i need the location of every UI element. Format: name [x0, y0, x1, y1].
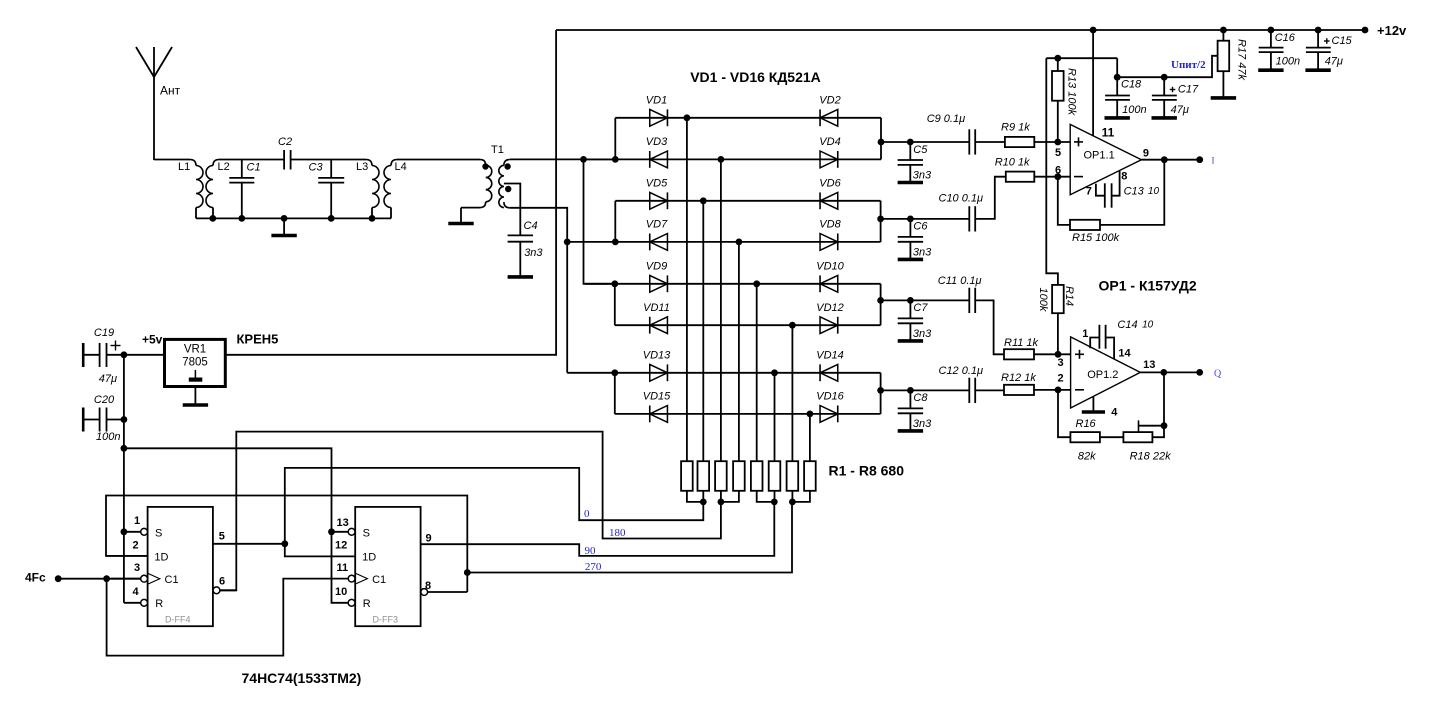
svg-text:3: 3: [1058, 357, 1064, 369]
resistor R7: [787, 461, 799, 491]
pin 3 C1 FF4 clock: [111, 578, 141, 580]
svg-text:270: 270: [585, 561, 602, 573]
wire R3 bottom: [720, 491, 722, 502]
svg-text:C12 0.1μ: C12 0.1μ: [939, 365, 984, 377]
wire mixer row 4: [567, 241, 880, 243]
node C1 bottom: [238, 215, 245, 222]
svg-text:C19: C19: [94, 327, 114, 339]
svg-text:C8: C8: [913, 392, 928, 404]
resistor R17 47k: [1222, 30, 1224, 41]
wire filter bottom rail: [196, 217, 391, 219]
capacitor C1: [241, 160, 243, 178]
svg-text:VD5: VD5: [646, 177, 668, 189]
node R7R8: [789, 499, 796, 506]
wire antenna to L1: [154, 159, 190, 161]
op-amp OP1.2: [1071, 337, 1141, 408]
capacitor C13 between pins 7 8: [1096, 184, 1105, 196]
ground VR1: [194, 387, 196, 405]
node -in OP1.2: [1055, 387, 1062, 394]
svg-text:9: 9: [426, 533, 432, 545]
pin 11 C1 FF3: [348, 575, 355, 582]
svg-text:C1: C1: [165, 574, 179, 586]
svg-text:100n: 100n: [1276, 56, 1300, 68]
svg-text:2: 2: [133, 540, 139, 552]
svg-text:13: 13: [337, 517, 349, 529]
wire stem of resistor R2: [702, 201, 704, 461]
wire link rows VD5-VD7: [614, 201, 616, 242]
wire R6 bottom: [774, 491, 776, 502]
svg-text:D-FF4: D-FF4: [165, 615, 191, 625]
wire R8 bottom to node: [792, 491, 810, 502]
wire group 4 output: [881, 389, 911, 391]
svg-text:R1 - R8 680: R1 - R8 680: [829, 463, 905, 479]
svg-text:ОР1 - К157УД2: ОР1 - К157УД2: [1099, 277, 1197, 293]
capacitor C2: [283, 150, 285, 170]
svg-text:1: 1: [1082, 328, 1088, 340]
wire stem of resistor R7: [791, 325, 793, 461]
svg-text:VD16: VD16: [816, 391, 844, 403]
svg-text:R12 1k: R12 1k: [1001, 372, 1036, 384]
wire stem of resistor R3: [720, 159, 722, 461]
inductor L4: [391, 160, 397, 166]
svg-text:1D: 1D: [362, 551, 376, 563]
svg-text:C11 0.1μ: C11 0.1μ: [938, 275, 982, 287]
wire stem of resistor R6: [774, 373, 776, 461]
svg-text:VD3: VD3: [646, 136, 668, 148]
svg-text:47μ: 47μ: [1171, 104, 1189, 116]
wire mixer group 3 output vertical: [880, 284, 882, 325]
wire stem of resistor R4: [738, 242, 740, 461]
ground T1 primary: [460, 208, 462, 223]
wire link rows VD13-VD15: [614, 373, 616, 414]
svg-text:7: 7: [1086, 186, 1092, 198]
wire T1 secondary bottom to mixer: [510, 208, 567, 373]
svg-text:+5v: +5v: [142, 333, 163, 347]
node R5 taps mixer row: [753, 280, 760, 287]
svg-text:VD13: VD13: [643, 349, 671, 361]
node R18 wiper: [1161, 422, 1168, 429]
node +in OP1.1: [1054, 139, 1061, 146]
wire stem of resistor R5: [756, 284, 758, 461]
diode VD13: [650, 364, 668, 381]
wire group 3 output: [881, 299, 911, 301]
wire link rows VD9-VD11: [614, 284, 616, 325]
node FF3 S tap: [328, 528, 335, 535]
wire +5v to FF3 S and R: [124, 448, 348, 603]
svg-text:OP1.2: OP1.2: [1087, 369, 1118, 381]
resistor R1: [681, 461, 693, 491]
svg-text:4: 4: [133, 586, 140, 598]
resistor R10: [1006, 172, 1035, 182]
diode VD10: [820, 275, 838, 292]
wire R12 to opamp: [1034, 389, 1071, 391]
svg-text:R11 1k: R11 1k: [1004, 337, 1039, 349]
node +5v branch to FF3: [121, 445, 128, 452]
pin 13 S FF3: [348, 528, 355, 535]
svg-text:Uпит/2: Uпит/2: [1171, 59, 1206, 71]
wire +5v vertical: [123, 355, 125, 603]
wire R1 bottom to node: [687, 491, 703, 502]
diode VD3: [650, 151, 668, 168]
inductor L1: [190, 160, 196, 166]
svg-text:VD9: VD9: [646, 260, 667, 272]
node R6 taps mixer row: [771, 369, 778, 376]
diode VD5: [650, 192, 668, 209]
resistor R8: [804, 461, 816, 491]
wire Upit/2 node line: [1116, 58, 1118, 77]
voltage regulator VR1 7805: [165, 339, 226, 386]
svg-text:4: 4: [1111, 407, 1118, 419]
svg-text:100n: 100n: [96, 431, 120, 443]
svg-text:C14: C14: [1117, 319, 1137, 331]
resistor R3: [715, 461, 727, 491]
wire mixer row 7: [567, 372, 880, 374]
resistor R6: [769, 461, 781, 491]
wire stem of resistor R8: [809, 414, 811, 461]
svg-text:C9 0.1μ: C9 0.1μ: [927, 113, 965, 125]
wire mixer row 1: [615, 117, 881, 119]
svg-text:10: 10: [1148, 186, 1160, 197]
wire R11 to opamp: [1034, 353, 1071, 355]
svg-text:6: 6: [1055, 165, 1061, 177]
wire Upit/2 distribution: [1046, 57, 1117, 59]
svg-text:R: R: [363, 598, 371, 610]
svg-text:5: 5: [219, 531, 225, 543]
node R17 top: [1220, 27, 1227, 34]
pin 1 S FF4: [124, 531, 141, 533]
capacitor C16: [1268, 27, 1275, 34]
node L3 bottom: [369, 215, 376, 222]
node +in OP1.2: [1055, 351, 1062, 358]
wire input A down to row VD9: [584, 159, 615, 283]
capacitor C7: [907, 297, 914, 304]
svg-text:82k: 82k: [1078, 451, 1096, 463]
node R1 taps mixer row: [684, 114, 691, 121]
svg-text:3n3: 3n3: [913, 418, 932, 430]
wire OP1.2 output: [1140, 371, 1199, 373]
wire stem of resistor R1: [686, 118, 688, 461]
svg-text:+12v: +12v: [1377, 23, 1407, 38]
node group 4 output: [877, 387, 884, 394]
node R5R6: [771, 499, 778, 506]
svg-text:14: 14: [1118, 348, 1131, 360]
wire mixer group 4 output vertical: [880, 373, 882, 414]
capacitor C6: [907, 216, 914, 223]
node R3 taps mixer row: [718, 156, 725, 163]
resistor R14 100k bias: [1052, 285, 1064, 313]
wire 4Fc detour to FF3 clock: [107, 579, 349, 656]
svg-text:8: 8: [1121, 171, 1127, 183]
svg-text:2: 2: [1058, 373, 1064, 385]
T1 secondary polarity dot lower: [505, 186, 511, 192]
svg-text:7805: 7805: [182, 357, 208, 369]
node phase0 at FF4 Q: [281, 540, 288, 547]
svg-text:9: 9: [1143, 148, 1149, 160]
node pin11 supply: [1090, 27, 1097, 34]
svg-text:3n3: 3n3: [913, 328, 932, 340]
svg-text:VD12: VD12: [816, 302, 844, 314]
op-amp OP1.1: [1070, 124, 1141, 194]
svg-text:C18: C18: [1121, 79, 1142, 91]
svg-text:L4: L4: [395, 161, 407, 173]
capacitor C19: [82, 343, 85, 367]
node R2 taps mixer row: [700, 197, 707, 204]
svg-text:VD1 - VD16 КД521А: VD1 - VD16 КД521А: [690, 69, 821, 85]
ground filter: [283, 218, 285, 234]
inductor L2: [213, 160, 219, 166]
svg-text:VD15: VD15: [643, 391, 671, 403]
resistor R18 22k trimmer: [1100, 436, 1124, 438]
capacitor C5: [907, 139, 914, 146]
feedback R16 82k: [1058, 390, 1070, 437]
svg-text:C15: C15: [1332, 35, 1353, 47]
svg-text:C16: C16: [1275, 32, 1296, 44]
svg-text:T1: T1: [491, 144, 504, 156]
svg-text:1: 1: [134, 515, 140, 527]
diode VD1: [650, 109, 668, 126]
svg-text:R17 47k: R17 47k: [1236, 39, 1248, 80]
wire FF4 1D from 270 line: [106, 496, 467, 573]
wire phase 180 line: [220, 432, 721, 591]
svg-text:R9 1k: R9 1k: [1001, 122, 1030, 134]
node R13 top: [1054, 55, 1061, 62]
capacitor C20: [82, 408, 85, 432]
wire +12v rail down to VR1 input: [225, 30, 556, 355]
pin 4 ground OP1.2: [1092, 397, 1094, 411]
resistor R13 100k bias: [1057, 101, 1059, 142]
resistor R5: [751, 461, 763, 491]
wire C10 up to R10: [975, 177, 1006, 219]
node R7 taps mixer row: [789, 322, 796, 329]
diode VD14: [820, 364, 838, 381]
wire group 2 output: [881, 218, 911, 220]
svg-text:R15 100k: R15 100k: [1072, 232, 1120, 244]
wire mixer row 8: [615, 413, 881, 415]
svg-text:C2: C2: [278, 136, 292, 148]
svg-text:R14: R14: [1063, 286, 1075, 306]
wire C11 down to R11: [975, 300, 1004, 354]
svg-text:R10 1k: R10 1k: [995, 157, 1030, 169]
svg-text:C4: C4: [524, 220, 538, 232]
svg-text:C1: C1: [372, 574, 386, 586]
svg-text:VD1: VD1: [646, 94, 667, 106]
svg-text:Ант: Ант: [160, 84, 181, 98]
diode VD4: [820, 151, 838, 168]
svg-text:R: R: [155, 598, 163, 610]
svg-text:R13 100k: R13 100k: [1066, 68, 1078, 116]
svg-text:VD6: VD6: [819, 177, 841, 189]
capacitor C9: [910, 141, 969, 143]
svg-text:VD8: VD8: [819, 219, 841, 231]
svg-text:D-FF3: D-FF3: [373, 615, 399, 625]
wire group 1 output: [881, 141, 910, 143]
svg-text:12: 12: [335, 540, 347, 552]
svg-text:90: 90: [585, 545, 597, 557]
svg-text:13: 13: [1143, 359, 1155, 371]
node -in OP1.1: [1054, 173, 1061, 180]
node 270 junction: [464, 569, 471, 576]
svg-text:R16: R16: [1076, 418, 1097, 430]
wire mixer row 2: [584, 158, 882, 160]
node C18: [1114, 74, 1121, 81]
wire mixer group 2 output vertical: [880, 201, 882, 242]
svg-text:L1: L1: [178, 161, 190, 173]
svg-text:C1: C1: [247, 162, 261, 174]
svg-text:S: S: [155, 527, 162, 539]
svg-text:L3: L3: [356, 161, 368, 173]
svg-text:VD14: VD14: [816, 349, 844, 361]
svg-text:VD4: VD4: [819, 136, 840, 148]
svg-text:VD7: VD7: [646, 219, 668, 231]
capacitor C8: [907, 387, 914, 394]
svg-text:3n3: 3n3: [913, 170, 932, 182]
svg-text:100n: 100n: [1122, 104, 1146, 116]
wire phase 0 line: [285, 468, 704, 544]
capacitor C14 between pins 1 14: [1090, 338, 1099, 349]
svg-text:47μ: 47μ: [99, 373, 117, 385]
svg-text:5: 5: [1055, 147, 1061, 159]
wire FF4 Q to FF3 1D: [285, 544, 355, 557]
node C17: [1161, 74, 1168, 81]
capacitor C15: [1315, 27, 1322, 34]
resistor R11: [1004, 349, 1034, 359]
wire R2 bottom: [702, 491, 704, 502]
node group 1 output: [878, 139, 885, 146]
feedback R15 100k: [1100, 160, 1164, 225]
node R4 taps mixer row: [736, 239, 743, 246]
wire C2 to L3: [291, 159, 366, 161]
resistor R12: [1004, 385, 1034, 395]
resistor R9: [1005, 137, 1034, 147]
capacitor C18: [1116, 77, 1118, 95]
node group 3 output: [877, 297, 884, 304]
wire phase 90 line: [421, 502, 775, 556]
svg-text:VD11: VD11: [643, 302, 670, 314]
wire mixer row 6: [615, 324, 881, 326]
diode VD12: [820, 317, 838, 334]
capacitor C11: [910, 299, 969, 301]
pin 8 Qbar FF3: [421, 589, 428, 596]
node R1R2: [700, 499, 707, 506]
svg-text:C20: C20: [94, 394, 115, 406]
resistor R2: [698, 461, 710, 491]
svg-text:11: 11: [1102, 126, 1115, 140]
wire L2 to C2: [219, 159, 284, 161]
antenna Ant: [136, 47, 154, 160]
wire mixer group 1 output vertical: [880, 118, 882, 160]
wire mixer row 5: [585, 283, 881, 285]
svg-text:74HC74(1533ТМ2): 74HC74(1533ТМ2): [242, 670, 362, 686]
svg-text:C7: C7: [913, 302, 928, 314]
pin 4 R FF4: [124, 602, 141, 604]
terminal I output: [1196, 156, 1203, 163]
svg-text:OP1.1: OP1.1: [1084, 150, 1115, 162]
svg-text:6: 6: [219, 576, 225, 588]
node R3R4: [718, 499, 725, 506]
svg-text:8: 8: [425, 580, 431, 592]
capacitor C12: [910, 389, 969, 391]
svg-text:VR1: VR1: [184, 344, 206, 356]
node L2 bottom: [209, 215, 216, 222]
svg-text:C3: C3: [309, 162, 324, 174]
T1 primary polarity dot: [482, 163, 488, 169]
inductor L3: [366, 160, 372, 166]
terminal Q output: [1196, 369, 1203, 376]
svg-text:S: S: [363, 527, 370, 539]
wire +12v rail: [556, 29, 1365, 31]
wire L4 to T1: [397, 159, 480, 161]
svg-text:10: 10: [1142, 319, 1154, 330]
wire OP1.1 output: [1141, 159, 1199, 161]
diode VD16: [820, 406, 838, 423]
svg-text:C10 0.1μ: C10 0.1μ: [939, 193, 984, 205]
node input B on row VD7: [564, 239, 571, 246]
node 4Fc branch: [103, 575, 110, 582]
svg-text:47μ: 47μ: [1325, 56, 1343, 68]
diode VD2: [820, 109, 838, 126]
pin 2 1D FF4: [106, 555, 148, 557]
pin 11 supply OP1.1: [1092, 30, 1094, 136]
svg-text:3: 3: [134, 562, 140, 574]
wire R5 bottom to node: [757, 491, 775, 502]
transformer T1 secondary: [504, 160, 510, 166]
wire R9 to opamp: [1034, 141, 1070, 143]
node C20: [121, 416, 128, 423]
svg-text:0: 0: [584, 508, 590, 520]
wire phase 270 line: [467, 502, 792, 573]
svg-text:L2: L2: [218, 161, 230, 173]
capacitor C10: [910, 218, 969, 220]
capacitor C3: [330, 160, 332, 178]
node OP1.2 output: [1160, 369, 1167, 376]
pin 5 Q FF4: [213, 543, 285, 545]
pin 6 Qbar FF4: [213, 587, 220, 594]
svg-text:C6: C6: [913, 221, 928, 233]
wire T1 center tap to C4: [504, 184, 520, 236]
wire R18 wiper: [1138, 420, 1140, 432]
wire R10 to opamp: [1034, 176, 1070, 178]
svg-text:I: I: [1212, 156, 1215, 166]
diode VD8: [820, 234, 838, 251]
wire link rows VD1-VD3: [614, 118, 616, 160]
svg-text:10: 10: [335, 586, 347, 598]
svg-text:R18 22k: R18 22k: [1130, 451, 1171, 463]
svg-text:180: 180: [609, 527, 626, 539]
svg-text:КРЕН5: КРЕН5: [237, 332, 279, 347]
resistor R4: [733, 461, 745, 491]
diode VD7: [650, 234, 668, 251]
svg-text:C17: C17: [1178, 84, 1199, 96]
svg-text:3n3: 3n3: [524, 247, 543, 259]
diode VD15: [650, 406, 668, 423]
capacitor C17: [1163, 77, 1165, 95]
terminal +12v: [1362, 27, 1369, 34]
svg-text:4Fc: 4Fc: [25, 570, 46, 584]
node mixer input A: [580, 156, 587, 163]
svg-text:100k: 100k: [1037, 288, 1049, 312]
capacitor C4: [508, 234, 533, 236]
node group 2 output: [877, 216, 884, 223]
T1 secondary polarity dot upper: [504, 163, 510, 169]
diode VD11: [650, 317, 668, 334]
node R8 taps mixer row: [807, 411, 814, 418]
pin 10 R FF3: [348, 599, 355, 606]
svg-text:C5: C5: [913, 144, 928, 156]
node OP1.1 output: [1161, 156, 1168, 163]
svg-text:VD10: VD10: [816, 260, 844, 272]
flip-flop D-FF4 74HC74: [148, 507, 213, 626]
flip-flop D-FF3 74HC74: [355, 507, 420, 626]
